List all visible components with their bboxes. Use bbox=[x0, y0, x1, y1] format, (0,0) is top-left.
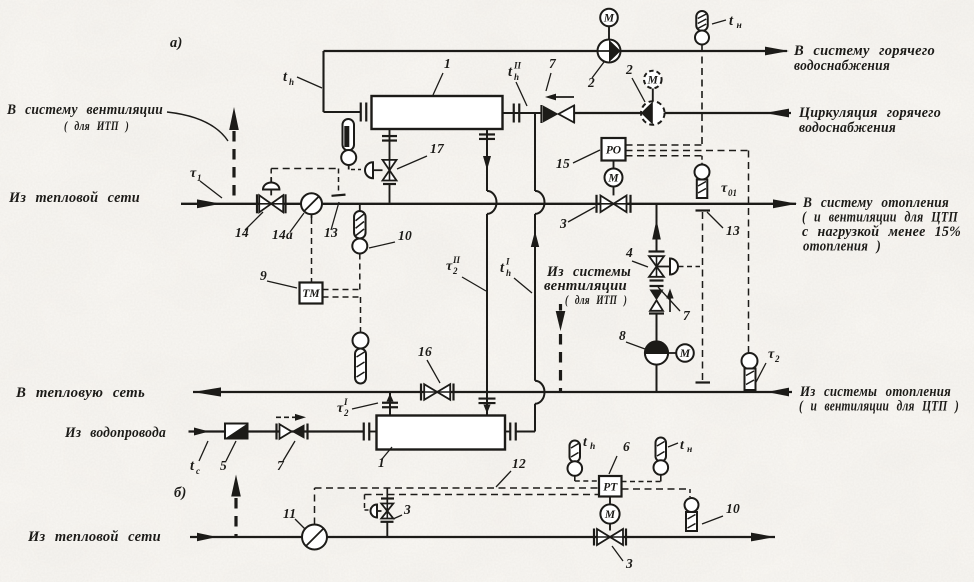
label t_h b bbox=[583, 435, 595, 452]
wire τ2-II line down to return pipe bbox=[486, 214, 488, 391]
sensor 13 (thermowell on supply pipe) bbox=[332, 195, 346, 196]
label 3 supply valve bbox=[559, 207, 595, 231]
label 6 bbox=[609, 439, 630, 474]
wire dashed РО to τ2 sensor bbox=[748, 151, 750, 353]
label 1 (HX2) bbox=[378, 447, 392, 470]
wire dashed РТ to thermometer 10 b bbox=[622, 489, 691, 497]
text from heating network b bbox=[27, 529, 161, 545]
wire t_h-I to HX2 right port bbox=[516, 404, 535, 432]
wire hot-water supply top pipe bbox=[324, 51, 788, 112]
valve 3 (vent branch b) bbox=[381, 488, 395, 538]
heat meter ТМ box 9 bbox=[300, 283, 323, 304]
svg-text:11: 11 bbox=[283, 506, 296, 521]
label 11 bbox=[283, 506, 305, 529]
svg-text:б): б) bbox=[174, 485, 187, 501]
label 3 b bbox=[612, 546, 633, 571]
actuator of valve 17 bbox=[365, 162, 383, 178]
label 3 small b bbox=[393, 502, 411, 519]
label τ2 I bbox=[337, 397, 378, 418]
heat exchanger U1 (stage II water heater) bbox=[372, 96, 503, 129]
pump 8 (mixing pump) bbox=[645, 341, 676, 364]
text to heating network bbox=[15, 385, 145, 401]
svg-text:τ: τ bbox=[337, 401, 344, 416]
svg-text:М: М bbox=[607, 173, 619, 185]
actuator of valve 3 b bbox=[371, 505, 382, 518]
wire dashed impulse line valve14 to sensor 13 bbox=[271, 169, 338, 194]
text from water supply bbox=[64, 425, 166, 441]
svg-text:I: I bbox=[505, 257, 510, 267]
label τ01 bbox=[721, 181, 737, 198]
text to vent system bbox=[6, 102, 228, 141]
svg-text:РО: РО bbox=[606, 144, 621, 156]
label tН bbox=[712, 13, 742, 31]
label 10 b bbox=[702, 501, 740, 524]
svg-text:01: 01 bbox=[728, 188, 737, 198]
controller РО 15 bbox=[602, 138, 626, 161]
valve 16 bbox=[421, 384, 454, 401]
thermometer 10 b bbox=[685, 498, 699, 531]
node arrow bottom pipe right bbox=[751, 533, 775, 542]
wire heating supply pipe bbox=[181, 203, 796, 205]
wire circulation pipe bbox=[574, 112, 791, 114]
node hump crossing t_h-I over return pipe bbox=[535, 381, 545, 404]
check valve 7 (pump 8 line) bbox=[649, 286, 664, 314]
sensor 13 (thermowell below supply pipe) bbox=[696, 209, 711, 211]
svg-text:Циркуляция горячего: Циркуляция горячего bbox=[798, 105, 941, 121]
label 14 bbox=[235, 212, 263, 240]
flow regulator 14а bbox=[301, 193, 322, 218]
svg-text:н: н bbox=[737, 21, 742, 31]
svg-text:Из тепловой сети: Из тепловой сети bbox=[27, 529, 161, 545]
pump 2 (hot water pump) bbox=[597, 27, 621, 63]
valve 17 (drain valve) bbox=[382, 129, 397, 203]
label 2 standby bbox=[625, 62, 645, 102]
wire τ2-II line from HX1 bbox=[479, 129, 495, 192]
wire bottom heating pipe bbox=[190, 536, 775, 538]
svg-text:н: н bbox=[687, 445, 692, 455]
wire dashed sensor 13 line down bbox=[702, 212, 704, 381]
label 15 bbox=[556, 150, 600, 171]
label 16 bbox=[418, 344, 440, 383]
svg-text:13: 13 bbox=[726, 223, 740, 238]
wire vent supply dashed arrow (to vent system) bbox=[229, 107, 239, 202]
svg-text:ТМ: ТМ bbox=[302, 288, 320, 300]
svg-text:τ: τ bbox=[446, 259, 453, 274]
pump 2 standby (dashed reserve pump) bbox=[641, 89, 665, 125]
filter 5 bbox=[225, 424, 248, 439]
label б) bbox=[174, 485, 187, 501]
controller РТ 6 bbox=[599, 476, 622, 497]
wire vent dashed arrow b bbox=[231, 475, 241, 537]
node arrow from water supply bbox=[194, 428, 209, 436]
label 4 bbox=[625, 245, 648, 267]
label t_c bbox=[190, 441, 208, 476]
label t_Н b bbox=[668, 438, 692, 455]
svg-text:16: 16 bbox=[418, 344, 432, 359]
svg-text:3: 3 bbox=[625, 556, 633, 571]
svg-text:( для ИТП ): ( для ИТП ) bbox=[565, 293, 627, 307]
svg-text:I: I bbox=[343, 397, 348, 407]
svg-text:10: 10 bbox=[398, 228, 412, 243]
label t_h II bbox=[508, 61, 527, 107]
svg-text:РТ: РТ bbox=[603, 481, 618, 493]
wire dashed line 12 lower row bbox=[365, 495, 600, 511]
control valve 3 (heating supply) bbox=[597, 195, 631, 213]
wire water supply pipe bbox=[189, 430, 364, 432]
valve 4 (with actuator) bbox=[649, 252, 665, 281]
svg-text:9: 9 bbox=[260, 268, 267, 283]
text circulation bbox=[798, 105, 941, 136]
thermometer t_h b bbox=[568, 441, 600, 482]
thermometer τ2 (return) bbox=[742, 353, 758, 390]
node hump crossing τ2-II over supply pipe bbox=[487, 191, 497, 214]
svg-text:h: h bbox=[514, 72, 519, 82]
wire τ2-II into HX2 top bbox=[479, 392, 496, 416]
text from vent system bbox=[544, 264, 631, 307]
svg-text:h: h bbox=[590, 442, 595, 452]
motor M of pump 2 bbox=[600, 9, 618, 27]
wire t_h-I line from circulation pipe bbox=[534, 113, 536, 191]
svg-text:17: 17 bbox=[430, 141, 445, 156]
label 13 right bbox=[707, 212, 740, 238]
svg-text:Из тепловой сети: Из тепловой сети bbox=[8, 190, 140, 206]
svg-text:II: II bbox=[452, 255, 461, 265]
elevator 11 bbox=[302, 525, 327, 550]
svg-text:t: t bbox=[729, 13, 734, 29]
valve 14 (pressure regulator valve) bbox=[257, 178, 286, 214]
svg-text:τ: τ bbox=[768, 347, 775, 362]
svg-text:вентиляции: вентиляции bbox=[544, 278, 627, 294]
svg-text:2: 2 bbox=[343, 408, 349, 418]
svg-text:7: 7 bbox=[549, 56, 557, 71]
label t_h top bbox=[283, 69, 322, 88]
label τ2 II bbox=[446, 255, 486, 291]
thermometer τ01 bbox=[695, 165, 710, 199]
svg-text:водоснабжения: водоснабжения bbox=[794, 58, 890, 74]
wire dashed ТМ to return thermometer bbox=[323, 297, 361, 333]
svg-text:h: h bbox=[506, 268, 511, 278]
label 7 check bbox=[658, 287, 691, 323]
text to heating system bbox=[802, 195, 961, 255]
svg-text:М: М bbox=[679, 348, 691, 360]
node arrow to heating system bbox=[773, 199, 797, 208]
svg-text:7: 7 bbox=[683, 308, 691, 323]
svg-text:водоснабжения: водоснабжения bbox=[799, 120, 896, 136]
svg-text:В тепловую сеть: В тепловую сеть bbox=[15, 385, 145, 401]
svg-text:c: c bbox=[196, 466, 200, 476]
check valve 7 (water line) bbox=[276, 414, 308, 440]
svg-text:h: h bbox=[289, 77, 294, 87]
node arrow from heating network bbox=[197, 199, 221, 208]
label 10 bbox=[369, 228, 412, 248]
label 7 top bbox=[546, 56, 557, 91]
label 17 bbox=[397, 141, 445, 169]
node arrow from heating system bbox=[767, 388, 789, 397]
wire dashed РО outputs bbox=[626, 145, 749, 165]
actuator of valve 4 bbox=[657, 259, 701, 275]
node arrow from heating network b bbox=[197, 533, 217, 542]
node hump crossing t_h-I over supply pipe bbox=[535, 191, 545, 214]
wire dashed thermometer 10 to ТМ bbox=[323, 254, 360, 290]
svg-text:15: 15 bbox=[556, 156, 570, 171]
label 5 bbox=[220, 441, 236, 473]
svg-text:В систему горячего: В систему горячего bbox=[793, 43, 935, 59]
motor M of pump 8 bbox=[676, 344, 694, 362]
motor M of valve 3 bbox=[605, 161, 623, 196]
svg-text:М: М bbox=[647, 75, 659, 87]
control valve 3 b bbox=[594, 529, 626, 546]
thermometer 10 (supply) bbox=[352, 204, 367, 254]
wire branch to pump 8 bbox=[652, 204, 661, 252]
label 8 bbox=[619, 328, 645, 349]
wire τ2-I port (HX2 to return) bbox=[382, 392, 398, 416]
sensor end bar at return pipe bbox=[696, 381, 711, 383]
svg-text:τ: τ bbox=[190, 166, 197, 181]
svg-text:3: 3 bbox=[403, 502, 411, 517]
node arrow to heating network bbox=[193, 387, 221, 396]
svg-text:отопления ): отопления ) bbox=[803, 239, 881, 255]
wire dashed impulse line from tН down to РО bbox=[701, 45, 703, 145]
label а) bbox=[170, 35, 183, 51]
thermometer t_Н b bbox=[622, 438, 669, 482]
svg-text:В систему вентиляции: В систему вентиляции bbox=[6, 102, 163, 118]
label τ2 right bbox=[755, 347, 780, 384]
wire t_h-I mid with up arrow bbox=[531, 214, 539, 381]
svg-text:М: М bbox=[604, 509, 616, 521]
text from heating network bbox=[8, 190, 140, 206]
svg-text:II: II bbox=[513, 61, 522, 71]
label 1 (HX1) bbox=[433, 56, 451, 95]
heat exchanger U2 (stage I water heater) bbox=[377, 416, 506, 450]
svg-text:М: М bbox=[603, 13, 615, 25]
wire HX1 right port bbox=[503, 104, 542, 123]
thermometer tН (outdoor sensor) bbox=[695, 11, 709, 45]
svg-text:12: 12 bbox=[512, 456, 526, 471]
wire dashed elevator to РТ line 12 bbox=[315, 488, 600, 525]
wire HX2 left port flange bbox=[364, 423, 377, 441]
motor M of valve 3 b bbox=[600, 497, 619, 531]
wire dashed 14а to ТМ bbox=[311, 218, 313, 283]
svg-text:4: 4 bbox=[625, 245, 633, 260]
label t_h I bbox=[500, 257, 532, 294]
svg-text:( для ИТП ): ( для ИТП ) bbox=[64, 119, 129, 133]
label 2 pump bbox=[587, 62, 604, 90]
label 7 water bbox=[277, 441, 295, 473]
wire vent return dashed arrow (from vent system) bbox=[556, 304, 566, 392]
node flow arrow up at check valve bbox=[666, 289, 673, 313]
label 12 bbox=[496, 456, 526, 487]
check valve 7 (hot water circulation) bbox=[542, 94, 575, 123]
node arrow to hot water system bbox=[765, 47, 789, 56]
thermometer (return, for ТМ) bbox=[353, 333, 369, 384]
svg-text:а): а) bbox=[170, 35, 183, 51]
svg-text:2: 2 bbox=[587, 75, 595, 90]
wire HX1 left port flange bbox=[361, 103, 367, 122]
wire HX2 right port flange bbox=[505, 423, 516, 441]
svg-text:8: 8 bbox=[619, 328, 626, 343]
svg-text:τ: τ bbox=[721, 181, 728, 196]
label 9 bbox=[260, 268, 297, 288]
wire return pipe bbox=[193, 391, 792, 393]
wire to pump 8 bbox=[656, 314, 658, 342]
label 14а bbox=[272, 213, 304, 242]
mercury thermometer (for valve 17) bbox=[341, 119, 361, 170]
svg-text:2: 2 bbox=[452, 266, 458, 276]
node arrow circulation incoming bbox=[765, 109, 789, 118]
svg-text:14а: 14а bbox=[272, 227, 293, 242]
svg-text:13: 13 bbox=[324, 225, 338, 240]
label τ1 bbox=[190, 166, 222, 198]
svg-text:Из водопровода: Из водопровода bbox=[64, 425, 166, 441]
svg-text:1: 1 bbox=[444, 56, 451, 71]
svg-text:3: 3 bbox=[559, 216, 567, 231]
label 13 left bbox=[324, 202, 339, 240]
text to hot water system bbox=[793, 43, 935, 74]
text from heating system bbox=[799, 384, 959, 415]
svg-text:10: 10 bbox=[726, 501, 740, 516]
svg-text:2: 2 bbox=[774, 354, 780, 364]
wire pump 8 to return pipe bbox=[656, 365, 658, 392]
svg-text:( и вентиляции для ЦТП ): ( и вентиляции для ЦТП ) bbox=[799, 399, 959, 415]
motor M of standby pump (dashed) bbox=[644, 71, 662, 89]
svg-text:6: 6 bbox=[623, 439, 630, 454]
svg-text:2: 2 bbox=[625, 62, 633, 77]
